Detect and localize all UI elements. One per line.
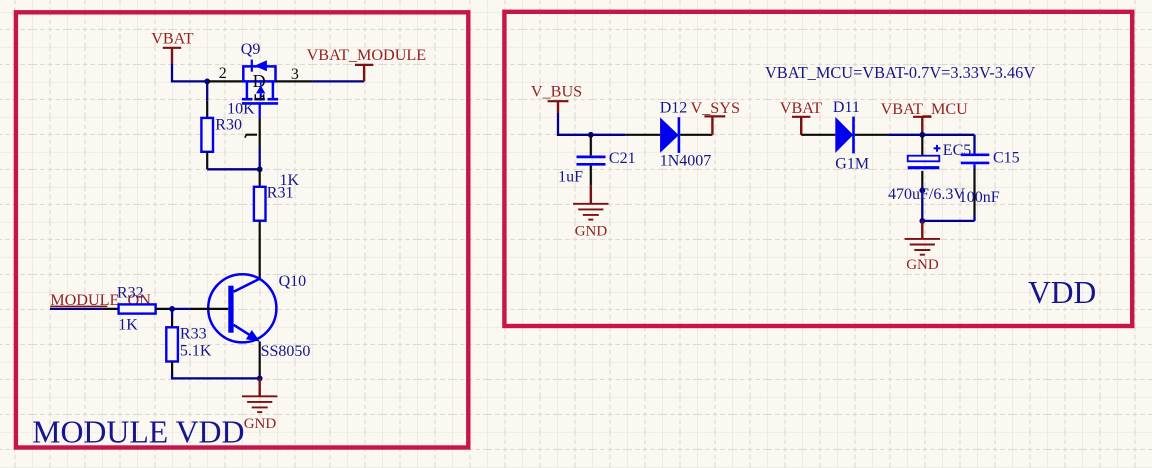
svg-text:GND: GND	[906, 257, 939, 273]
svg-text:GND: GND	[244, 416, 277, 432]
svg-text:VBAT_MODULE: VBAT_MODULE	[307, 46, 427, 64]
svg-text:R33: R33	[180, 325, 207, 342]
svg-text:SS8050: SS8050	[261, 343, 311, 360]
svg-text:2: 2	[219, 65, 227, 82]
svg-text:Q10: Q10	[279, 273, 307, 290]
svg-text:100nF: 100nF	[959, 189, 1000, 206]
svg-text:VBAT: VBAT	[151, 29, 193, 47]
svg-text:R30: R30	[215, 117, 242, 134]
svg-text:D12: D12	[660, 99, 688, 116]
svg-text:R31: R31	[267, 184, 294, 201]
svg-text:EC5: EC5	[943, 142, 971, 159]
svg-text:D: D	[253, 71, 266, 91]
svg-text:C21: C21	[609, 150, 636, 167]
svg-text:10K: 10K	[227, 100, 255, 117]
svg-text:C15: C15	[993, 150, 1020, 167]
svg-text:MODULE VDD: MODULE VDD	[32, 415, 244, 450]
svg-text:470uF/6.3V: 470uF/6.3V	[888, 186, 965, 203]
svg-text:1uF: 1uF	[558, 168, 583, 185]
svg-text:GND: GND	[575, 223, 608, 239]
svg-text:V_BUS: V_BUS	[531, 83, 582, 101]
svg-text:3: 3	[291, 66, 299, 83]
svg-text:D11: D11	[833, 99, 860, 116]
svg-text:G1M: G1M	[835, 156, 869, 173]
svg-text:Q9: Q9	[241, 41, 261, 58]
svg-text:VBAT_MCU: VBAT_MCU	[881, 100, 969, 118]
svg-text:VBAT_MCU=VBAT-0.7V=3.33V-3.46V: VBAT_MCU=VBAT-0.7V=3.33V-3.46V	[765, 63, 1035, 82]
svg-text:1N4007: 1N4007	[660, 153, 712, 170]
svg-text:1K: 1K	[118, 317, 138, 334]
svg-text:R32: R32	[117, 285, 144, 302]
svg-text:VDD: VDD	[1028, 275, 1096, 310]
svg-text:VBAT: VBAT	[780, 99, 822, 117]
svg-text:5.1K: 5.1K	[180, 342, 212, 359]
svg-text:V_SYS: V_SYS	[691, 99, 740, 117]
